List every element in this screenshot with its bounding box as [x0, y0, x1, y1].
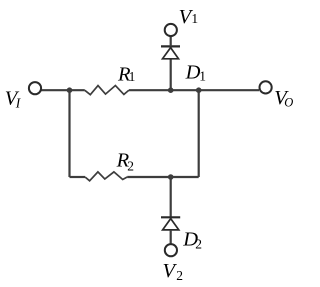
svg-text:2: 2 [176, 268, 183, 283]
resistor R1 [85, 86, 129, 95]
wire: right vertical branch [198, 89, 200, 177]
wire: R2 line left segment [70, 176, 86, 178]
svg-text:D: D [185, 61, 201, 83]
svg-text:2: 2 [127, 158, 134, 173]
svg-text:I: I [15, 95, 22, 110]
terminal V1 circle [165, 24, 177, 36]
node junction dot at output branch [196, 87, 202, 93]
diode D2 triangle [163, 219, 179, 230]
diode D2 cathode bar [161, 216, 180, 218]
wire: D2 anode to V2 terminal [170, 230, 172, 244]
svg-text:1: 1 [129, 69, 136, 84]
diode D1 triangle [163, 48, 179, 59]
node junction dot at D2/R2 [168, 174, 174, 180]
terminal V2 circle [165, 244, 177, 256]
terminal VO circle [260, 81, 272, 93]
wire: main horizontal V_I to R1 [41, 89, 85, 91]
wire: D2 cathode to R2 node [170, 177, 172, 217]
resistor R2 [85, 172, 127, 181]
terminal VI circle [29, 82, 41, 94]
wire: main horizontal R1 to V_O [129, 89, 259, 91]
wire: left vertical branch [68, 90, 70, 177]
wire: D1 cathode to V1 terminal [170, 37, 172, 47]
svg-text:O: O [284, 95, 293, 109]
wire: D1 anode to main wire [170, 59, 172, 90]
svg-text:1: 1 [199, 68, 206, 83]
svg-text:1: 1 [191, 11, 198, 26]
svg-text:2: 2 [195, 237, 202, 252]
diode D1 cathode bar [161, 45, 180, 47]
node junction dot at D1 [168, 87, 174, 93]
node junction dot at VI branch [67, 87, 73, 93]
wire: R2 line right segment [127, 176, 199, 178]
